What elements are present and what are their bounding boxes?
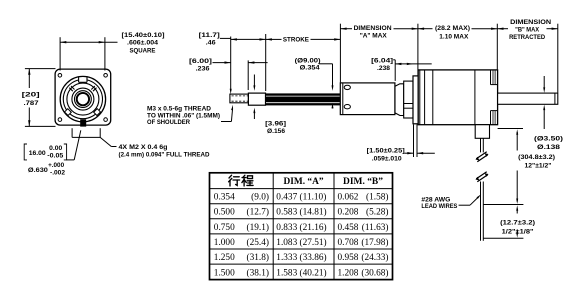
svg-text:1.208: 1.208: [338, 268, 359, 278]
svg-text:(17.98): (17.98): [361, 237, 388, 248]
svg-text:Ø.156: Ø.156: [267, 128, 285, 135]
svg-text:STROKE: STROKE: [283, 37, 309, 44]
svg-text:-.002: -.002: [50, 170, 66, 177]
front view: anti-rotation tab lower-right: [94, 109, 101, 116]
svg-text:.236: .236: [196, 66, 210, 73]
dimension 6.04: extension and line: [393, 59, 395, 61]
note 16.00 tolerance text: [24, 144, 27, 160]
svg-text:Ø.138: Ø.138: [537, 144, 560, 151]
extension line flange front: [417, 24, 419, 76]
dimension 304.8 wire length: extension line: [498, 128, 523, 130]
svg-text:12"±1/2": 12"±1/2": [525, 163, 552, 170]
svg-text:0.708: 0.708: [338, 238, 359, 248]
leader bracket under flange: [71, 128, 73, 137]
extension line shaft tip: [557, 24, 559, 93]
front view: anti-rotation tab lower-left: [65, 109, 72, 116]
front view: inner ring with anti-rotation gaps: [67, 83, 99, 115]
svg-text:Ø.630: Ø.630: [28, 167, 48, 174]
svg-text:0.958: 0.958: [338, 253, 359, 263]
dimension 1.50 arrows: [405, 152, 414, 154]
svg-text:1.083 (27.51): 1.083 (27.51): [276, 237, 326, 248]
dimension A: lines: [340, 28, 352, 30]
dimension 11.7: leader and line: [220, 37, 231, 39]
svg-text:DIM. “A”: DIM. “A”: [284, 176, 324, 187]
note M3 leader: [221, 121, 231, 123]
extension line motor rear: [496, 24, 498, 70]
lead wires: lower pair: [480, 182, 482, 241]
dimension 1.50 flange thickness: extension lines: [413, 125, 415, 158]
svg-text:(9.0): (9.0): [251, 192, 269, 203]
svg-text:0.00: 0.00: [49, 145, 63, 152]
front view: pilot boss outer circle: [60, 76, 105, 121]
note lead wires leader: [459, 204, 470, 206]
lead wires: break symbol upper: [476, 152, 486, 159]
svg-text:4X M2 X 0.4 6g: 4X M2 X 0.4 6g: [119, 144, 168, 151]
side view: sleeve nose cone: [395, 84, 404, 116]
svg-text:0.750: 0.750: [214, 223, 235, 233]
leader to boss diameter note: [66, 159, 74, 161]
table: outer border: [210, 173, 393, 280]
svg-text:"A" MAX: "A" MAX: [360, 32, 388, 39]
svg-text:1.250: 1.250: [214, 253, 235, 263]
side view: sleeve hole lower: [344, 105, 350, 109]
svg-text:RETRACTED: RETRACTED: [509, 34, 545, 41]
svg-text:(24.33): (24.33): [361, 252, 388, 263]
extension line screw tip left: [230, 37, 232, 92]
svg-text:SQUARE: SQUARE: [130, 47, 156, 54]
lead wires: stripped end tick: [483, 237, 523, 239]
svg-text:1.500: 1.500: [214, 268, 235, 278]
svg-text:(19.1): (19.1): [247, 222, 269, 233]
svg-text:[6.04]: [6.04]: [371, 57, 393, 64]
lead wires: insulation end tick: [483, 204, 523, 206]
svg-text:.787: .787: [24, 100, 39, 107]
front view: 4X M2 mounting holes: [58, 74, 62, 78]
dimension 3.96 screw diameter arrows: [253, 75, 255, 88]
svg-text:[1.50±0.25]: [1.50±0.25]: [367, 148, 405, 155]
side view: rear corner screw boss bottom: [490, 111, 492, 125]
svg-text:(31.8): (31.8): [247, 252, 269, 263]
svg-text:1.583 (40.21): 1.583 (40.21): [276, 267, 326, 278]
svg-text:(Ø3.50): (Ø3.50): [534, 136, 563, 143]
svg-text:(12.7): (12.7): [247, 207, 269, 218]
svg-text:+.000: +.000: [48, 162, 65, 169]
side view: threaded screw tip: [230, 94, 249, 103]
svg-text:(304.8±3.2): (304.8±3.2): [518, 154, 555, 161]
svg-text:1.000: 1.000: [214, 238, 235, 248]
side view: mounting flange plate edge-on: [413, 76, 418, 124]
dimension 6.00: leader and arrows: [213, 62, 231, 64]
svg-text:DIMENSION: DIMENSION: [510, 19, 551, 26]
side view: lead-screw threaded shaft: [266, 94, 343, 105]
svg-text:(38.1): (38.1): [247, 267, 269, 278]
dimension 15.40 square: dimension line: [60, 41, 117, 43]
svg-text:[20]: [20]: [22, 92, 40, 99]
side view: front end-cap lines: [419, 70, 421, 125]
side view: wire exit box: [475, 125, 489, 139]
table: column dividers: [272, 173, 274, 280]
svg-text:1/2"±1/8": 1/2"±1/8": [502, 228, 534, 235]
dimension 304.8: arrows: [516, 132, 518, 151]
front view: nut body circle: [75, 91, 92, 108]
svg-text:(2.4 mm) 0.094" FULL THREAD: (2.4 mm) 0.094" FULL THREAD: [119, 152, 210, 159]
front view: bottom tab solid: [81, 120, 86, 126]
front view: key ticks upper-right: [91, 86, 95, 90]
svg-text:-0.05: -0.05: [47, 152, 64, 159]
svg-text:0.500: 0.500: [214, 208, 235, 218]
svg-text:0.354: 0.354: [214, 193, 235, 203]
front view: keyway notch at top: [78, 77, 80, 82]
side view: rear end-cap line: [474, 70, 476, 125]
svg-text:[11.7]: [11.7]: [199, 32, 220, 39]
svg-text:1.10 MAX: 1.10 MAX: [439, 34, 469, 41]
svg-text:0.437 (11.10): 0.437 (11.10): [276, 192, 326, 203]
dimension 9.00 sleeve bore: leader: [319, 63, 333, 65]
front view: mounting flange square: [55, 69, 111, 125]
front view: key ticks upper-left: [71, 86, 75, 90]
svg-text:DIM. “B”: DIM. “B”: [343, 176, 383, 187]
svg-text:0.583 (14.81): 0.583 (14.81): [276, 207, 326, 218]
side view: rear corner screw boss top: [490, 70, 492, 85]
dimension 3.50 shaft: arrows: [543, 76, 545, 90]
side view: screw nose block: [248, 93, 265, 105]
svg-text:0.208: 0.208: [338, 208, 359, 218]
dimension 20/.787: dimension line: [28, 69, 30, 88]
svg-text:[3.96]: [3.96]: [265, 120, 286, 127]
svg-text:(30.68): (30.68): [361, 267, 388, 278]
svg-text:(5.28): (5.28): [366, 207, 388, 218]
extension line sleeve left: [339, 24, 341, 83]
svg-text:DIMENSION: DIMENSION: [354, 25, 392, 32]
side view: sleeve hole upper: [344, 85, 350, 89]
svg-text:(11.63): (11.63): [362, 222, 389, 233]
dimension 20/.787: extension lines: [25, 68, 56, 70]
extension line nose block left: [247, 60, 249, 90]
dimension 15.40 square: extension lines: [59, 37, 61, 70]
extension line nose block right: [265, 34, 267, 91]
svg-text:0.833 (21.16): 0.833 (21.16): [276, 222, 326, 233]
svg-text:1.333 (33.86): 1.333 (33.86): [276, 252, 326, 263]
dimension 28.2: lines: [418, 28, 433, 30]
svg-text:.46: .46: [206, 40, 216, 47]
side view: motor body: [418, 70, 497, 125]
svg-text:LEAD WIRES: LEAD WIRES: [421, 203, 458, 210]
svg-text:[6.00]: [6.00]: [189, 58, 212, 65]
svg-text:(1.58): (1.58): [366, 192, 388, 203]
svg-text:.606±.004: .606±.004: [127, 40, 158, 47]
front view: nut flange circle: [72, 88, 94, 110]
svg-text:"B" MAX: "B" MAX: [515, 26, 540, 33]
side view: anti-rotation sleeve body: [340, 83, 395, 115]
svg-text:0.458: 0.458: [338, 223, 359, 233]
svg-text:0.062: 0.062: [338, 193, 359, 203]
svg-text:[15.40±0.10]: [15.40±0.10]: [122, 32, 165, 39]
svg-text:OF SHOULDER: OF SHOULDER: [147, 119, 190, 126]
table header: stroke label (CJK): [229, 175, 254, 186]
dimension STROKE: lines: [266, 38, 282, 40]
svg-text:(Ø9.00): (Ø9.00): [295, 58, 321, 65]
dimension B: lines: [497, 28, 508, 30]
side view: bushing section: [404, 81, 413, 118]
leader to 4X M2 note: [100, 137, 111, 146]
svg-text:.059±.010: .059±.010: [372, 155, 402, 162]
svg-text:Ø.354: Ø.354: [300, 65, 320, 72]
svg-text:(12.7±3.2): (12.7±3.2): [500, 219, 535, 226]
dimension 12.7 stripped length: arrows: [516, 209, 518, 214]
lead wires: upper insulated pair: [480, 138, 482, 152]
svg-text:(25.4): (25.4): [247, 237, 269, 248]
side view: rear shaft retracted: [498, 93, 558, 104]
table: row lines: [210, 188, 393, 190]
front view: lead-screw bore: [77, 93, 89, 105]
svg-text:16.00: 16.00: [29, 150, 46, 157]
svg-text:.238: .238: [377, 65, 390, 72]
front view: ring with keyway notch: [63, 80, 102, 119]
svg-text:(28.2 MAX): (28.2 MAX): [435, 25, 470, 32]
lead wires: break symbol lower: [476, 172, 486, 179]
